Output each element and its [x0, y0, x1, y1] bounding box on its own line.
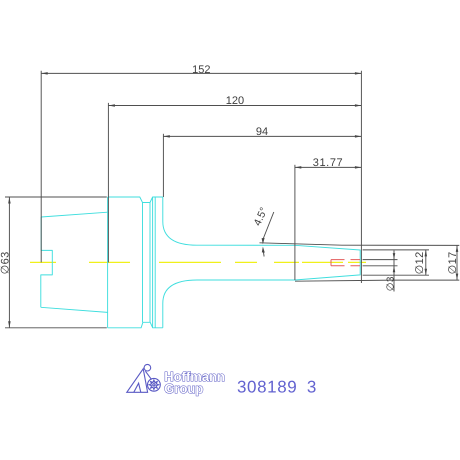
- svg-text:152: 152: [192, 64, 210, 76]
- svg-text:Group: Group: [164, 381, 203, 396]
- svg-text:∅17: ∅17: [447, 251, 459, 274]
- svg-text:∅63: ∅63: [0, 251, 12, 274]
- svg-text:94: 94: [256, 126, 268, 138]
- svg-text:3: 3: [307, 377, 316, 396]
- svg-text:∅3: ∅3: [385, 276, 396, 291]
- svg-text:120: 120: [226, 95, 244, 107]
- svg-text:4.5°: 4.5°: [252, 206, 271, 228]
- svg-text:∅12: ∅12: [414, 251, 426, 274]
- svg-text:31.77: 31.77: [313, 157, 344, 169]
- svg-text:308189: 308189: [237, 377, 297, 396]
